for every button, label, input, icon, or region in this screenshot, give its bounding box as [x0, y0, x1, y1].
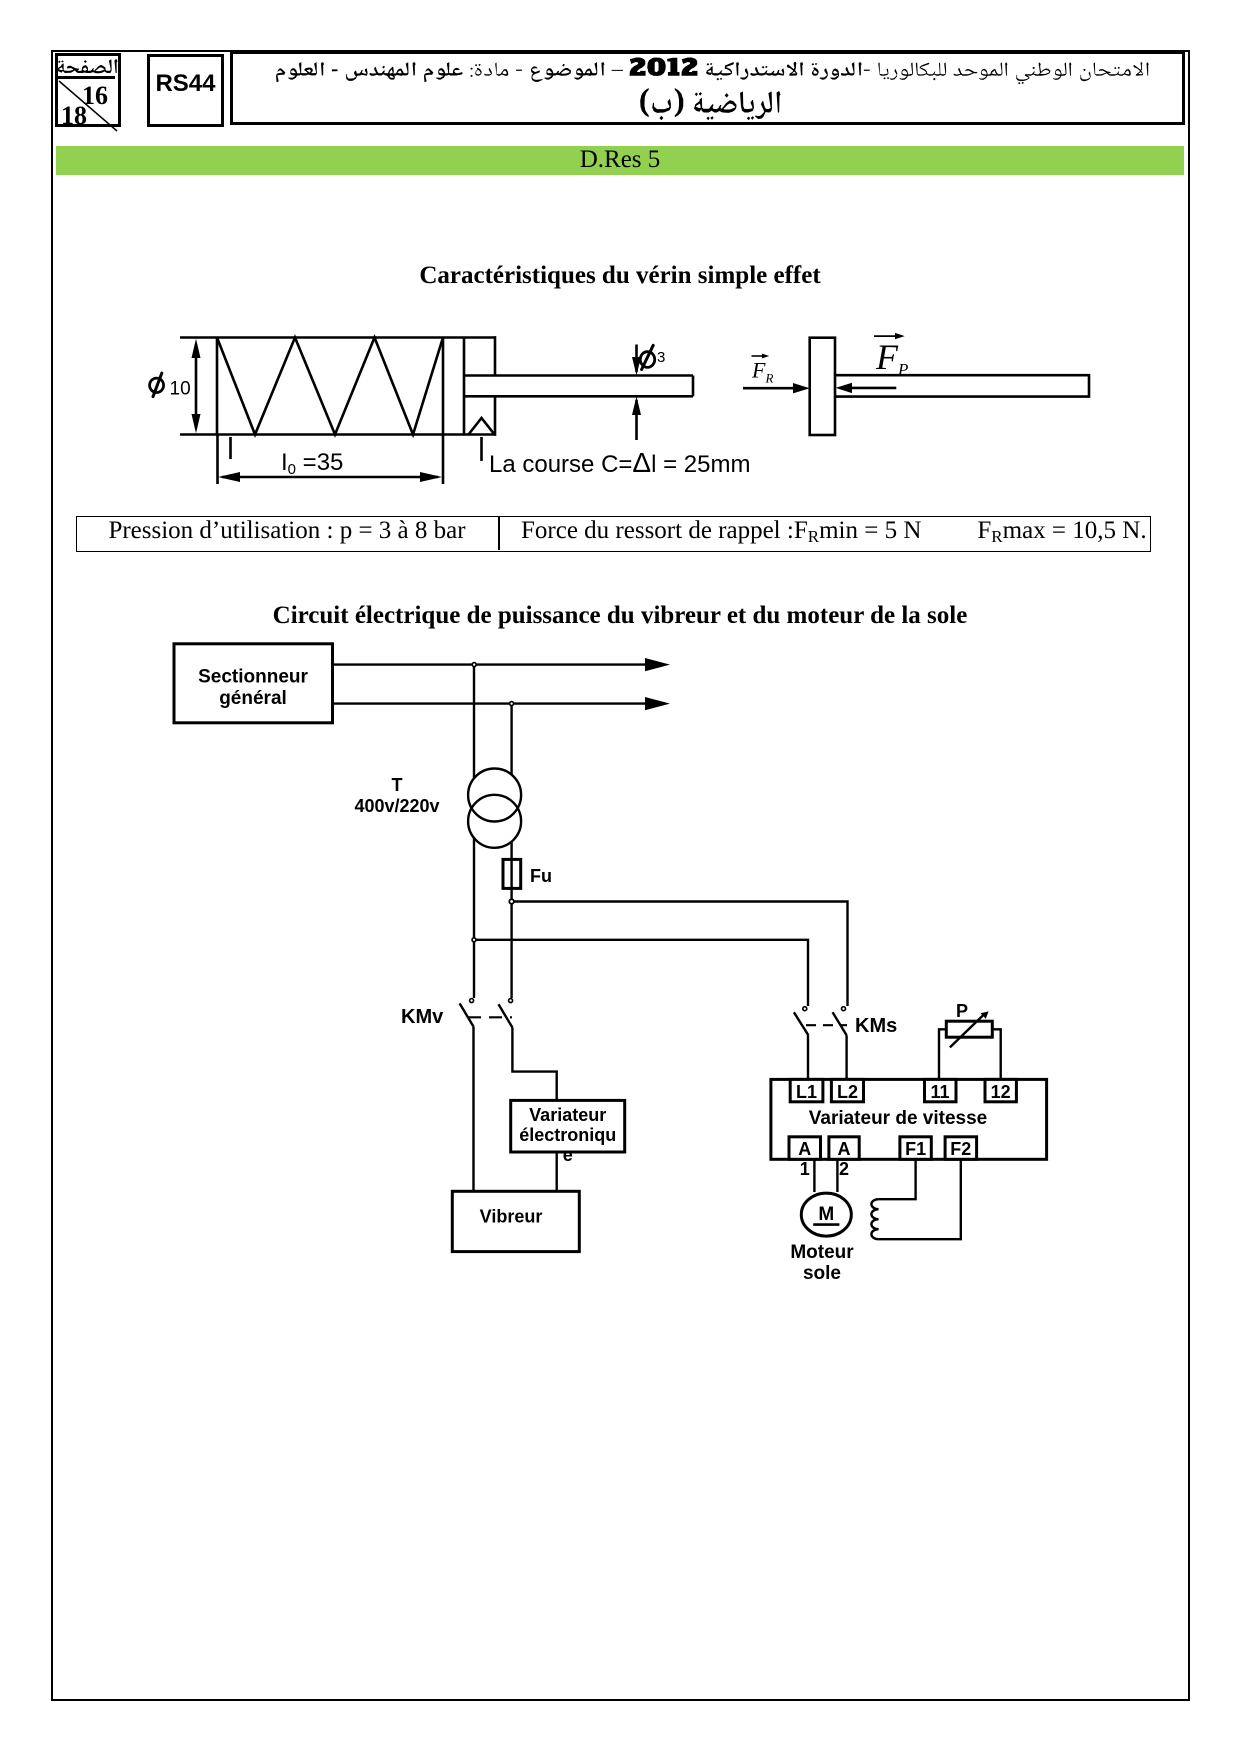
phi3 up arrowhead: [632, 396, 641, 415]
svg-text:10: 10: [170, 378, 191, 399]
force FP arrow: [849, 387, 896, 390]
svg-text:I0 =35: I0 =35: [281, 449, 343, 478]
terminal F1: [900, 1137, 931, 1160]
terminal L2: [831, 1079, 863, 1101]
force diagram piston plate: [810, 338, 835, 435]
potentiometer arrow: [950, 1014, 984, 1047]
KMv wire below right pole: [512, 1028, 556, 1101]
cylinder body top line: [180, 336, 496, 339]
fuse body: [503, 859, 521, 888]
header: main title box: [230, 51, 1185, 125]
left drop wire lower: [473, 838, 475, 998]
phase 1 arrowhead: [645, 658, 670, 671]
terminal A1: [789, 1137, 821, 1160]
svg-text:e: e: [563, 1145, 573, 1165]
svg-text:11: 11: [930, 1082, 949, 1102]
sectionneur box: [174, 644, 333, 723]
phi3 dim upper line: [635, 345, 638, 373]
piston rod top line: [464, 374, 693, 377]
svg-text:F1: F1: [905, 1139, 926, 1159]
KMs contact circle left: [803, 1007, 807, 1011]
phase 2 arrowhead: [645, 697, 670, 710]
variateur de vitesse box: [771, 1079, 1047, 1159]
svg-text:KMv: KMv: [401, 1006, 444, 1028]
right drop wire upper: [510, 704, 512, 775]
motor wire A2: [836, 1159, 838, 1192]
header arabic text: [0, 0, 1240, 130]
arabic text line1: [276, 58, 1149, 85]
variateur electronique box: [511, 1100, 625, 1152]
wire variateur to vibreur: [556, 1152, 558, 1191]
svg-text:1: 1: [800, 1159, 810, 1179]
force FR arrow: [743, 387, 795, 390]
KMv contact circle left: [470, 999, 474, 1003]
pot right wire: [992, 1029, 1000, 1079]
motor circle: [801, 1193, 851, 1236]
header: RS44 box: [147, 54, 224, 127]
dim I0 left arrowhead: [218, 472, 240, 482]
spring seat left vertical: [216, 338, 219, 435]
circuit drawing: [0, 635, 1240, 1295]
FP vector bar: [874, 335, 898, 337]
svg-text:La course C=Δl = 25mm: La course C=Δl = 25mm: [489, 447, 751, 478]
KMv wire below left pole: [472, 1027, 474, 1192]
phase wire 2: [332, 702, 650, 704]
svg-text:Fu: Fu: [530, 866, 552, 886]
svg-text:Variateur de vitesse: Variateur de vitesse: [809, 1108, 988, 1129]
right drop wire through fuse: [510, 842, 512, 999]
diagonal line: [59, 81, 117, 131]
svg-text:FR: FR: [751, 358, 773, 386]
phi10 top arrowhead: [192, 339, 201, 358]
field winding coil: [871, 1199, 878, 1239]
pages box divider: [58, 76, 115, 79]
title 1: [0, 262, 1240, 290]
phi10 dim arrow: [195, 344, 198, 428]
pot left wire: [939, 1029, 946, 1079]
svg-text:général: général: [219, 688, 287, 709]
KMs linkage dashes: [806, 1024, 847, 1026]
phi3 dim lower line: [635, 400, 638, 440]
svg-text:Vibreur: Vibreur: [480, 1207, 543, 1227]
piston face vertical: [442, 338, 445, 435]
arabic text line2: [640, 88, 780, 120]
phi10 label symbol: [150, 378, 164, 392]
svg-text:M: M: [818, 1204, 834, 1225]
terminal F2: [945, 1137, 977, 1160]
terminal 11: [925, 1079, 957, 1101]
KMv contact circle right: [509, 999, 513, 1003]
dim I0 right extension line: [442, 435, 445, 484]
force diagram rod outline: [835, 375, 1089, 396]
svg-text:3: 3: [657, 349, 665, 366]
small port tick: [229, 437, 232, 459]
svg-text:P: P: [956, 1001, 968, 1021]
svg-text:Sectionneur: Sectionneur: [198, 666, 308, 687]
field winding wire F1: [879, 1159, 916, 1199]
terminal A2: [829, 1137, 859, 1160]
arabic text safha: [58, 59, 118, 73]
phase wire 1: [332, 663, 650, 665]
KMv right blade: [499, 1004, 513, 1027]
cylinder head right wall upper: [494, 336, 497, 375]
svg-text:T: T: [392, 775, 403, 795]
junction dot 2: [510, 702, 514, 706]
data table: [76, 516, 1151, 552]
green banner D.Res 5: [56, 146, 1184, 175]
svg-text:FP: FP: [875, 337, 908, 379]
wire fuse to KMs right: [512, 902, 848, 1007]
pages box diagonal + numbers: [0, 0, 1240, 140]
KMs right blade: [833, 1012, 847, 1035]
dim I0 arrow line: [222, 476, 438, 479]
phi10 bottom arrowhead: [192, 414, 201, 433]
cylinder body bottom line: [180, 433, 496, 436]
phi3 down arrowhead: [632, 357, 641, 376]
cylinder head right wall lower: [494, 396, 497, 436]
transformer circle primary: [468, 769, 521, 822]
KMs wire below right pole: [845, 1035, 847, 1079]
piston rod right end: [692, 376, 695, 397]
vibreur box: [452, 1191, 579, 1251]
svg-text:L1: L1: [796, 1082, 817, 1102]
cylinder head left wall: [463, 338, 466, 435]
wire left to KMs left: [474, 940, 808, 1006]
piston rod bottom line: [464, 395, 693, 398]
transformer circle secondary: [468, 795, 521, 848]
dim I0 right arrowhead: [420, 472, 442, 482]
FR vector bar: [752, 355, 767, 357]
KMs contact circle right: [842, 1007, 846, 1011]
junction dot left line: [472, 938, 476, 942]
svg-text:L2: L2: [837, 1082, 858, 1102]
KMs wire below left pole: [807, 1035, 809, 1079]
svg-text:A: A: [838, 1139, 851, 1159]
field winding wire F2: [879, 1159, 961, 1239]
svg-text:A: A: [798, 1139, 811, 1159]
svg-text:sole: sole: [803, 1263, 841, 1284]
svg-text:400v/220v: 400v/220v: [354, 796, 439, 816]
svg-text:électroniqu: électroniqu: [519, 1125, 616, 1145]
dim I0 left extension line: [216, 435, 219, 484]
svg-text:KMs: KMs: [855, 1015, 897, 1037]
junction dot fuse line: [509, 899, 514, 904]
motor wire A1: [813, 1159, 815, 1192]
course leader line: [480, 437, 483, 461]
terminal 12: [985, 1079, 1016, 1101]
terminal L1: [790, 1079, 823, 1101]
junction dot 1: [472, 663, 476, 667]
left drop wire upper: [473, 665, 475, 778]
KMv linkage dashes: [468, 1016, 512, 1018]
svg-text:F2: F2: [950, 1139, 971, 1159]
potentiometer body: [946, 1021, 992, 1037]
header: pages box: [55, 53, 121, 127]
course triangle mark: [469, 418, 495, 435]
cylinder + forces drawing: [0, 300, 1240, 510]
svg-text:2: 2: [839, 1159, 849, 1179]
pot arrowhead: [981, 1011, 989, 1018]
svg-text:Variateur: Variateur: [529, 1105, 606, 1125]
title 2: [0, 602, 1240, 630]
svg-text:12: 12: [991, 1082, 1011, 1102]
KMs left blade: [794, 1012, 809, 1035]
phi3 label symbol: [640, 352, 654, 368]
KMv left blade: [460, 1003, 474, 1026]
spring zigzag: [217, 338, 443, 435]
svg-text:Moteur: Moteur: [790, 1242, 854, 1263]
